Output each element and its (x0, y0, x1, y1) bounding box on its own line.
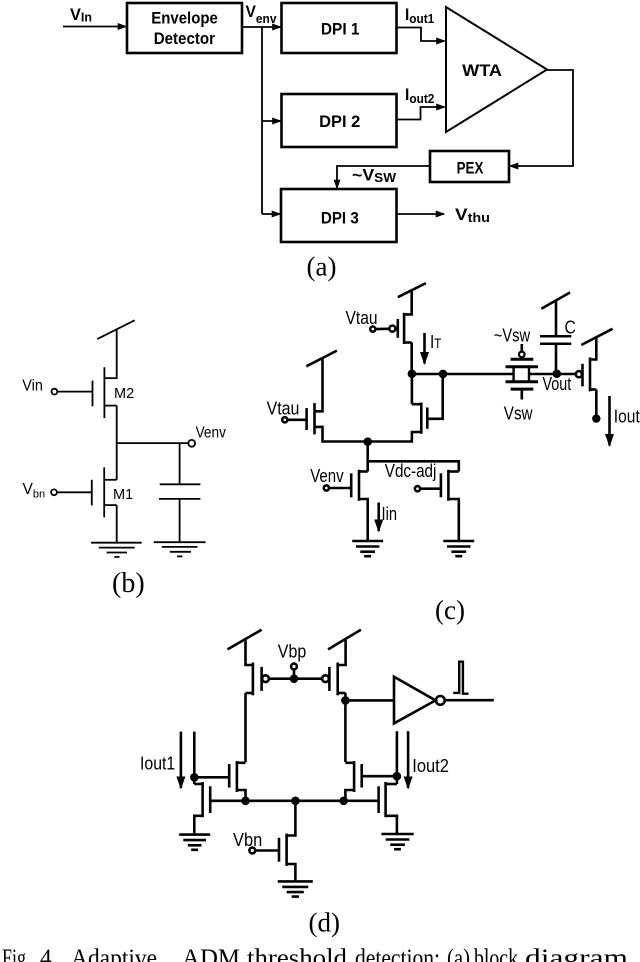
svg-text:(d): (d) (309, 908, 340, 938)
node Vin label (70, 5, 92, 25)
wire DPI2 to WTA (397, 107, 445, 120)
label (c) (435, 595, 465, 625)
svg-text:Venv: Venv (310, 466, 343, 486)
node Iout2 label (405, 85, 434, 106)
node Iout1 label (405, 5, 434, 26)
op-amp WTA (446, 7, 547, 132)
svg-text:DPI 2: DPI 2 (319, 112, 360, 131)
svg-text:C: C (565, 318, 576, 338)
wire DPI3 output (397, 213, 445, 215)
wire supply to M9 source (246, 640, 253, 665)
node G junction dot (292, 798, 298, 804)
svg-text:Iout1: Iout1 (405, 5, 434, 26)
wire supply to M4 source (404, 290, 412, 314)
svg-text:VIn: VIn (70, 5, 92, 25)
svg-text:WTA: WTA (462, 61, 502, 80)
transistor M13 upper-right nmos (345, 761, 361, 801)
power supply slash left (c) (306, 351, 337, 367)
node C junction dot (365, 439, 371, 445)
node A junction dot (409, 371, 415, 377)
svg-text:Vout: Vout (543, 374, 572, 394)
wire node C down (366, 442, 369, 472)
pulse symbol (453, 662, 468, 694)
wire PEX to DPI3 (337, 166, 430, 188)
svg-text:~VSW: ~VSW (352, 166, 397, 186)
svg-text:Vsw: Vsw (504, 404, 534, 424)
ground under M8 (443, 541, 474, 556)
wire node to switch (412, 373, 514, 376)
wire M1 source to ground (116, 505, 118, 543)
svg-text:DPI 3: DPI 3 (321, 209, 359, 228)
svg-text:IT: IT (430, 332, 441, 352)
node Vout junction dot (543, 371, 572, 394)
svg-text:Iout: Iout (614, 407, 640, 427)
svg-text:~Vsw: ~Vsw (494, 325, 531, 345)
svg-text:Vbn: Vbn (23, 481, 46, 501)
node Venv terminal (c) (310, 466, 351, 491)
svg-text:Vbn: Vbn (233, 830, 262, 850)
wire Venv to DPI1 (242, 26, 281, 28)
current arrow Iin (379, 503, 397, 532)
block PEX (430, 151, 509, 182)
svg-text:DPI 1: DPI 1 (321, 20, 360, 39)
svg-text:Iout1: Iout1 (140, 753, 175, 773)
label (a) (307, 252, 337, 282)
node Vin terminal (22, 378, 92, 395)
current arrow IT (425, 332, 442, 364)
node Vbn terminal (23, 481, 92, 501)
node B junction dot (440, 371, 446, 377)
block DPI 1 (282, 3, 397, 53)
wire Venv vertical bus (261, 27, 263, 214)
power supply slash right (c) (581, 329, 612, 345)
node D junction dot (342, 697, 348, 703)
power supply slash right (d) (328, 630, 361, 650)
inverter U1 (394, 677, 445, 724)
wire WTA to PEX (510, 70, 573, 166)
svg-text:Vthu: Vthu (455, 205, 490, 225)
transistor M3 Vtau left nmos (307, 403, 323, 441)
wire M9 drain down (244, 693, 247, 762)
current arrow Iout (610, 396, 640, 446)
node Vbn terminal (d) (233, 830, 279, 853)
capacitor C (540, 318, 576, 344)
svg-text:Vbp: Vbp (278, 642, 306, 662)
wire DPI1 to WTA (397, 28, 445, 42)
svg-text:(a): (a) (307, 252, 337, 282)
svg-text:Vin: Vin (22, 378, 43, 395)
node F junction dot (243, 798, 249, 804)
ground under capacitor (154, 542, 206, 556)
svg-text:(c): (c) (435, 595, 465, 625)
svg-text:M2: M2 (114, 386, 134, 402)
transistor M8 Vdc-adj nmos (441, 470, 459, 541)
node Vdc-adj terminal (385, 461, 441, 491)
wire branch to M8 (368, 461, 459, 471)
svg-text:Venv: Venv (196, 425, 227, 442)
svg-text:(b): (b) (112, 568, 145, 599)
wire M4 drain to node (410, 343, 413, 374)
transistor M15 Vbn tail nmos (279, 801, 295, 882)
label (d) (309, 908, 340, 938)
label (b) (112, 568, 145, 599)
svg-text:Detector: Detector (154, 29, 216, 48)
power supply slash top (c) (398, 283, 426, 297)
switch transmission gate SW (506, 344, 539, 400)
wire Iout1 input (193, 732, 196, 784)
transistor M5 diode-connected nmos (412, 374, 443, 442)
svg-text:Iin: Iin (382, 504, 398, 524)
svg-text:Iout2: Iout2 (405, 85, 434, 106)
block Envelope Detector (127, 3, 242, 53)
node Vsw label (c) (504, 404, 534, 424)
wire M2 source to node (116, 406, 118, 480)
node ~Vsw label (352, 166, 397, 186)
wire Vin input arrow (63, 26, 126, 28)
ground under M15 (278, 881, 313, 896)
node Venv output (117, 425, 226, 447)
power supply slash cap (c) (541, 293, 570, 309)
transistor M10 right pmos (322, 663, 346, 696)
node ~Vsw label (c) (494, 325, 531, 345)
node Vthu label (455, 205, 490, 225)
svg-text:M1: M1 (113, 487, 133, 503)
wire branch to DPI2 (262, 120, 281, 122)
transistor M6 output pmos (576, 358, 596, 392)
svg-text:Fig.4.AdaptiveADMthresholddete: Fig.4.AdaptiveADMthresholddetection:(a)b… (2, 945, 629, 962)
svg-text:Vtau: Vtau (346, 308, 378, 328)
ground under M1 (91, 543, 142, 557)
wire branch to DPI3 (262, 213, 280, 215)
wire capacitor to ground (179, 499, 181, 542)
transistor M11 upper-left nmos (229, 761, 245, 801)
wire mid rail (d) (210, 799, 378, 802)
wire node E to M11 gate (194, 776, 229, 779)
transistor M9 left pmos (246, 663, 269, 696)
wire node D to inverter (345, 699, 394, 702)
wire M6 drain to output (595, 390, 598, 416)
wire supply to M3 drain (315, 358, 323, 411)
capacitor Cb (159, 484, 200, 499)
block DPI 3 (281, 189, 397, 242)
ground under M14 (381, 834, 413, 849)
transistor M2 (93, 367, 135, 418)
svg-text:Vdc-adj: Vdc-adj (385, 461, 437, 481)
wire supply to capacitor (555, 301, 558, 337)
ground under M12 (179, 835, 210, 850)
wire node to capacitor (179, 443, 181, 484)
svg-text:PEX: PEX (457, 158, 484, 177)
wire supply to M2 drain (104, 330, 116, 378)
ground under M7 (352, 541, 383, 556)
node Vtau terminal left (267, 398, 307, 422)
node E junction dot (191, 774, 197, 780)
wire M10 drain down (344, 693, 347, 762)
svg-text:Venv: Venv (246, 2, 278, 26)
power supply slash left (d) (228, 630, 262, 650)
node I junction dot (394, 773, 400, 779)
transistor M12 lower-left nmos (194, 782, 213, 835)
wire node I to M13 gate (362, 775, 397, 778)
wire supply to M10 source (338, 640, 346, 665)
wire supply to M6 source (590, 337, 596, 360)
transistor M14 lower-right nmos (379, 782, 397, 834)
current arrow Iout2 (408, 731, 449, 788)
wire inverter output (445, 699, 494, 702)
svg-text:Iout2: Iout2 (412, 756, 449, 776)
svg-text:Vtau: Vtau (267, 398, 300, 418)
transistor M7 Venv nmos (351, 470, 368, 541)
current arrow Iout1 (140, 732, 181, 788)
node Vtau terminal top (346, 308, 390, 332)
svg-text:Envelope: Envelope (151, 8, 218, 27)
node H junction dot (341, 798, 347, 804)
node Vbp terminal (269, 642, 322, 682)
node output terminal dot (593, 416, 599, 422)
node Venv label (246, 2, 278, 26)
power supply slash (b) (97, 320, 135, 339)
wire bottom rail (c) (321, 440, 413, 443)
wire capacitor to Vout node (555, 344, 558, 374)
transistor M4 Vtau top pmos (389, 313, 411, 344)
wire switch to Vout (529, 373, 576, 376)
block DPI 2 (282, 94, 397, 147)
wire Iout2 input (396, 731, 399, 784)
transistor M1 (92, 467, 133, 517)
